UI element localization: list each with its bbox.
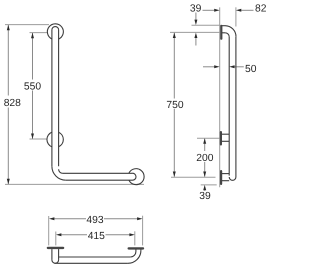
- svg-text:550: 550: [24, 81, 41, 92]
- svg-text:39: 39: [199, 191, 211, 202]
- svg-text:828: 828: [4, 98, 21, 109]
- svg-text:82: 82: [255, 4, 267, 15]
- svg-text:750: 750: [166, 100, 183, 111]
- svg-text:493: 493: [86, 215, 103, 226]
- svg-text:39: 39: [190, 4, 202, 15]
- svg-text:415: 415: [88, 231, 105, 242]
- svg-text:200: 200: [196, 153, 213, 164]
- svg-text:50: 50: [245, 64, 257, 75]
